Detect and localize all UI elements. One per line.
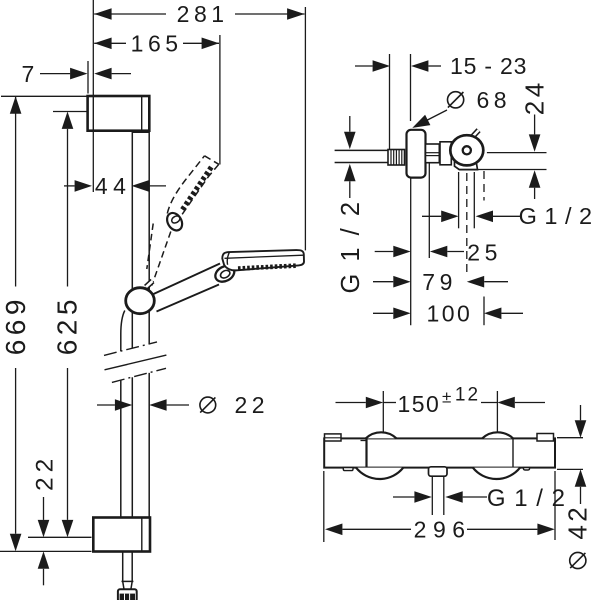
shower head inner line xyxy=(225,255,304,258)
dimension 44 arrows xyxy=(75,180,92,192)
wall bracket top lip line xyxy=(92,96,94,131)
G1/2 supply arrow upper xyxy=(349,116,351,132)
wall bracket bottom xyxy=(93,518,150,552)
outlet hex nut xyxy=(426,144,440,163)
dashed handle right line xyxy=(152,232,171,286)
extension line x389 xyxy=(389,54,391,149)
dimension 15-23 tail right xyxy=(428,65,441,67)
extension line x458 xyxy=(458,172,460,228)
dimension 150 tails xyxy=(336,402,366,404)
svg-text:25: 25 xyxy=(467,240,502,266)
svg-text:79: 79 xyxy=(422,269,457,295)
hose left edge lower xyxy=(120,380,122,551)
shower head neck line xyxy=(227,252,229,265)
handle bottom line xyxy=(157,285,220,312)
holder ring xyxy=(450,135,483,165)
svg-text:625: 625 xyxy=(52,295,83,355)
shower head knuckle inner xyxy=(219,269,231,280)
dimension 7 tail left xyxy=(40,73,70,75)
extension line y551 xyxy=(0,550,92,552)
extension line x429 xyxy=(428,163,430,258)
break line upper dash-dot xyxy=(104,342,157,356)
extension line y152 xyxy=(487,152,547,154)
extension line x555 xyxy=(554,471,556,540)
dashed shower left edge xyxy=(167,156,204,214)
extension line x383 xyxy=(382,391,384,436)
dimension 24 upper xyxy=(534,115,536,135)
extension line x220 xyxy=(219,35,221,165)
nipple extension lines xyxy=(431,476,433,515)
extension line y169 xyxy=(460,169,547,171)
body end cap line right xyxy=(512,438,514,467)
holder tab xyxy=(472,130,479,137)
svg-text:G 1 / 2: G 1 / 2 xyxy=(487,485,566,512)
dimension 25 arrows xyxy=(375,251,394,253)
holder connector xyxy=(440,142,451,165)
dimension 100 arrows xyxy=(373,312,393,314)
svg-text:100: 100 xyxy=(426,301,472,327)
hose upper curve xyxy=(121,311,125,352)
dimension 7 tail right xyxy=(112,73,131,75)
shower head body xyxy=(222,250,304,270)
dia68 symbol xyxy=(448,92,464,108)
hose nut xyxy=(118,589,137,600)
G1/2 outlet arrows xyxy=(393,496,414,498)
svg-text:7: 7 xyxy=(22,61,39,87)
dimension dia22 arrows xyxy=(115,399,132,411)
svg-text:24: 24 xyxy=(519,79,549,115)
hose fitting taper xyxy=(123,581,124,589)
union nut ribbed xyxy=(388,150,405,166)
extension line y96 xyxy=(1,95,88,97)
svg-text:22: 22 xyxy=(235,392,270,418)
dimension 24 lower xyxy=(529,170,541,187)
rail left edge xyxy=(131,131,133,348)
slider knob tab xyxy=(146,281,153,287)
right handle bottom arc xyxy=(473,468,520,479)
outlet nipple xyxy=(429,467,448,476)
dia68 leader line xyxy=(425,110,448,122)
dimension 22 line xyxy=(43,497,45,520)
extension line y111 xyxy=(53,111,88,113)
svg-text:165: 165 xyxy=(131,30,183,56)
right tab xyxy=(537,434,554,442)
G1/2 supply arrow lower xyxy=(344,164,356,181)
dimension dia22 tails xyxy=(97,404,115,406)
dia42 symbol xyxy=(570,552,586,568)
thermostat body xyxy=(324,438,555,467)
dimension 625 line xyxy=(67,129,69,287)
escutcheon dia68 xyxy=(407,130,426,178)
dimension 669 line xyxy=(15,96,17,286)
svg-text:22: 22 xyxy=(31,454,58,491)
extension line y469 xyxy=(557,468,583,470)
extension line x497 xyxy=(496,391,498,436)
G1/2 holder arrows xyxy=(422,215,441,217)
extension line x484 dashed xyxy=(483,171,485,201)
svg-text:44: 44 xyxy=(95,173,132,199)
right handle top arc xyxy=(482,432,513,438)
left handle bottom arc xyxy=(356,468,403,479)
dashed shower cap xyxy=(164,210,185,233)
svg-text:±: ± xyxy=(442,387,451,406)
dimension 7 arrows xyxy=(70,68,87,80)
dimension 296 arrows xyxy=(325,524,342,536)
svg-text:12: 12 xyxy=(455,385,480,406)
slider knob xyxy=(126,288,155,314)
dimension 44 tails xyxy=(64,185,75,187)
break line lower dash-dot xyxy=(112,368,166,382)
left handle top arc xyxy=(366,432,397,438)
extension line x324 xyxy=(323,471,325,542)
dimension 165 line xyxy=(94,42,126,44)
svg-text:68: 68 xyxy=(477,87,512,113)
body handle edge left xyxy=(365,438,367,467)
left tab xyxy=(325,434,342,441)
right end nub xyxy=(524,468,530,470)
wall bracket bottom inner line xyxy=(141,518,143,552)
holder pin hole xyxy=(463,146,471,154)
handle top line xyxy=(154,264,221,295)
svg-text:42: 42 xyxy=(563,504,593,540)
extension line x474 xyxy=(473,172,475,228)
extension line x410 lower xyxy=(410,178,412,326)
shower head spray face xyxy=(238,266,297,269)
shower head knuckle xyxy=(213,263,237,285)
extension line x466 dashed xyxy=(466,173,468,275)
dimension 150 line segs xyxy=(383,402,396,404)
dimension 15-23 arrows xyxy=(373,60,390,72)
dimension 281 arrows xyxy=(94,8,111,20)
svg-text:G 1 / 2: G 1 / 2 xyxy=(519,203,593,229)
extension line y437 xyxy=(557,437,583,439)
dia22 diameter symbol xyxy=(200,397,216,413)
dashed handle left line xyxy=(147,224,153,270)
break line middle xyxy=(105,355,167,370)
dashed shower spray face xyxy=(182,167,211,210)
dimension 625 arrows xyxy=(62,112,74,129)
dimension 150 arrows xyxy=(366,397,383,409)
dimension 669 arrows xyxy=(10,96,22,113)
wall bracket top inner line xyxy=(141,96,143,131)
dimension 165 arrows xyxy=(94,38,111,50)
dimension 281 line xyxy=(94,13,166,15)
extension line x410 xyxy=(410,54,412,121)
dashed shower top end xyxy=(205,156,219,165)
wall bracket top step xyxy=(132,131,149,133)
holder foot xyxy=(455,162,478,170)
svg-text:15 - 23: 15 - 23 xyxy=(450,53,527,79)
svg-text:669: 669 xyxy=(0,295,31,355)
extension line y537 xyxy=(28,536,92,538)
extension line x88 xyxy=(87,61,89,94)
svg-text:296: 296 xyxy=(414,517,472,543)
wall bracket top xyxy=(88,96,150,131)
svg-text:G 1 / 2: G 1 / 2 xyxy=(337,199,365,293)
extension line left x93 xyxy=(92,0,94,96)
supply pipe xyxy=(335,149,388,151)
body step line left xyxy=(361,440,367,442)
svg-text:281: 281 xyxy=(177,1,229,27)
rail right edge xyxy=(148,131,150,344)
hose below bracket xyxy=(122,552,124,582)
left end nub xyxy=(343,468,353,471)
extension line x93 lower xyxy=(92,131,94,192)
extension line right x305 xyxy=(304,7,306,250)
dashed shower cap inner xyxy=(170,215,181,225)
dimension 15-23 tail left xyxy=(355,65,373,67)
dia68 leader arrowhead xyxy=(412,115,430,128)
dia42 arrows xyxy=(580,405,582,420)
dashed shower right edge xyxy=(182,164,219,214)
svg-text:150: 150 xyxy=(397,391,440,417)
dimension 22 arrows xyxy=(38,520,50,537)
dimension 296 line xyxy=(342,528,411,530)
hose fitting shoulder xyxy=(122,580,134,582)
dimension 79 arrows xyxy=(373,281,393,283)
